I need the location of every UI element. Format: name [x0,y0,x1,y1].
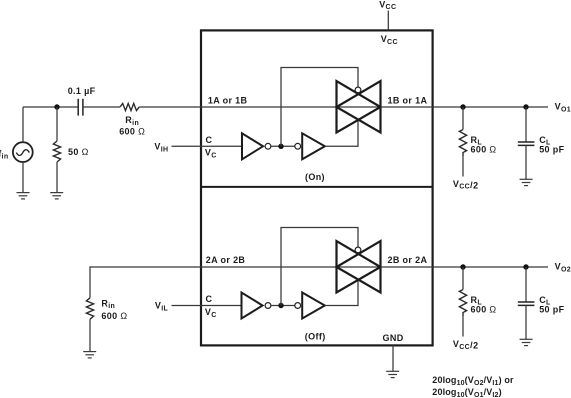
ground (50 ohm) [50,193,63,199]
wire CL upper (top) [525,107,527,142]
svg-text:VC: VC [205,307,217,319]
wire through gate (top) [337,106,381,108]
svg-text:1B or 1A: 1B or 1A [388,95,428,105]
resistor RL (bottom) [459,290,466,317]
resistor Rin (bottom) [86,298,93,319]
wire Rin to gate (1A line) [139,106,336,108]
wire RL upper (bottom) [462,267,464,290]
capacitor CL (bottom) [518,302,535,305]
svg-text:1A or 1B: 1A or 1B [208,95,248,105]
svg-text:GND: GND [383,333,404,343]
buffer U2A (top second) [302,133,325,159]
svg-text:0.1 µF: 0.1 µF [68,86,96,96]
svg-text:VIH: VIH [154,142,168,154]
bubble buffer input (top) [295,143,301,149]
section divider line [201,186,433,188]
capacitor CL (top) [518,142,535,145]
wire control riser (top) [281,68,358,147]
buffer U2B (bottom second) [302,293,325,319]
capacitor 0.1 uF [78,99,83,116]
bubble U1A output [265,143,271,149]
transmission gate (top channel) [337,81,381,133]
wire input top line [23,106,78,108]
svg-text:Rin: Rin [125,115,139,127]
svg-text:fin: fin [0,149,8,161]
inverter U1B (bottom first) [242,293,263,319]
wire source bottom [22,162,24,193]
svg-text:Rin: Rin [101,298,115,310]
svg-text:(On): (On) [305,172,325,182]
resistor Rin (top) [120,103,139,110]
wire buffer out to gate (bottom) [325,280,358,306]
node control junction (bottom) [278,303,283,308]
wire 50 ohm branch lower [56,162,58,192]
svg-text:2A or 2B: 2A or 2B [206,255,246,265]
wire VCC to box top [387,11,389,31]
svg-text:VCC/2: VCC/2 [453,339,479,351]
resistor RL (top) [459,130,466,157]
node CL tap (bottom) [523,264,528,269]
svg-text:VO1: VO1 [555,102,571,114]
bubble gate pgate (top) [355,87,361,93]
svg-text:VO2: VO2 [555,262,571,274]
wire control riser (bottom) [281,228,358,306]
bubble U1B output [265,303,271,309]
svg-text:20log10(VO2/VI1) or: 20log10(VO2/VI1) or [432,375,514,387]
svg-text:C: C [206,294,213,304]
wire bubble to buffer (bottom) [271,305,296,307]
svg-text:50 pF: 50 pF [539,304,564,314]
wire Rin lower (bottom) [89,319,91,351]
svg-text:VIL: VIL [155,301,169,313]
inverter U1A (top first) [242,133,263,159]
svg-text:600 Ω: 600 Ω [471,144,497,154]
wire cap to Rin [83,106,120,108]
wire gate to output (top) [381,106,549,108]
ground (CL top) [520,179,533,185]
wire RL upper (top) [462,107,464,130]
wire RL lower (bottom) [462,316,464,337]
bubble buffer input (bottom) [295,303,301,309]
svg-text:VC: VC [205,148,217,160]
wire CL upper (bottom) [525,267,527,302]
svg-text:600 Ω: 600 Ω [101,311,127,321]
wire through gate (bottom) [337,266,381,268]
svg-text:VCC/2: VCC/2 [453,179,479,191]
ground (CL bottom) [520,339,533,345]
bubble gate pgate (bottom) [355,247,361,253]
node junction (50 ohm tap) [54,104,59,109]
wire 50 ohm branch upper [56,107,58,141]
wire source top riser [22,107,24,142]
wire buffer out to gate (top) [325,120,358,146]
node CL tap (top) [523,104,528,109]
svg-text:600 Ω: 600 Ω [471,304,497,314]
wire VIL to inverter [172,305,242,307]
node control junction (top) [278,144,283,149]
svg-text:600 Ω: 600 Ω [119,126,145,136]
ground (source) [17,193,30,199]
svg-text:VCC: VCC [381,34,398,46]
node RL tap (bottom) [460,264,465,269]
svg-text:20log10(VO1/VI2): 20log10(VO1/VI2) [432,387,501,398]
wire CL lower (top) [525,145,527,179]
svg-text:C: C [206,135,213,145]
device outline box [201,30,433,345]
wire gate to output (bottom) [381,266,549,268]
wire bubble to buffer [271,145,296,147]
svg-text:(Off): (Off) [305,332,326,342]
transmission gate (bottom channel) [337,241,381,293]
ground (GND pin) [386,371,399,377]
wire 2A input line [90,267,337,298]
svg-text:50 pF: 50 pF [539,144,564,154]
wire CL lower (bottom) [525,305,527,339]
resistor 50 ohm [53,141,60,162]
svg-text:50 Ω: 50 Ω [68,147,89,157]
sine source fin [13,142,33,162]
wire GND drop [392,345,394,371]
svg-text:VCC: VCC [379,0,396,11]
wire VIH to inverter [172,145,243,147]
svg-text:2B or 2A: 2B or 2A [388,255,428,265]
ground (Rin bottom) [83,352,96,358]
node RL tap (top) [460,104,465,109]
wire RL lower (top) [462,156,464,177]
